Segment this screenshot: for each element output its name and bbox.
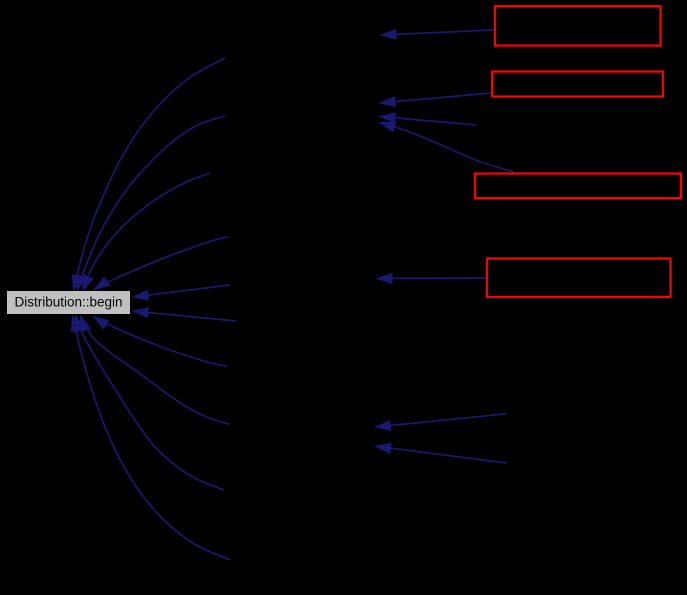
svg-text:Distribution::begin: Distribution::begin — [14, 295, 122, 310]
edge node B3 -> caller3b — [380, 122, 514, 172]
edge caller6 -> Distribution::begin — [133, 308, 236, 321]
edge caller10 -> Distribution::begin — [71, 316, 230, 560]
edge caller5 -> Distribution::begin — [133, 285, 230, 300]
edge node B4 -> caller5 — [377, 274, 486, 284]
edge node B1 -> caller1 — [381, 29, 494, 39]
edge caller7 -> Distribution::begin — [94, 317, 228, 367]
node Distribution::begin (current node, gray fill) — [7, 291, 131, 315]
node B3 (red border, single-line, wide) — [475, 174, 681, 199]
edge caller8 -> Distribution::begin — [81, 316, 231, 425]
edge hidden node2 -> caller8a — [376, 414, 507, 431]
edge caller9 -> Distribution::begin — [75, 316, 224, 490]
edge hidden node -> caller3a — [380, 113, 476, 125]
node B4 (red border, two-line) — [487, 259, 671, 298]
edge caller3 -> Distribution::begin — [83, 173, 211, 291]
node B2 (red border, single-line) — [492, 72, 663, 97]
edge caller4 -> Distribution::begin — [95, 237, 228, 290]
edge node B2 -> caller2 — [380, 93, 491, 107]
edge hidden node3 -> caller8b — [376, 443, 507, 463]
edge caller1 -> Distribution::begin — [72, 58, 225, 291]
node B1 (red border, two-line, top right) — [495, 6, 661, 46]
edge caller2 -> Distribution::begin — [77, 116, 225, 291]
